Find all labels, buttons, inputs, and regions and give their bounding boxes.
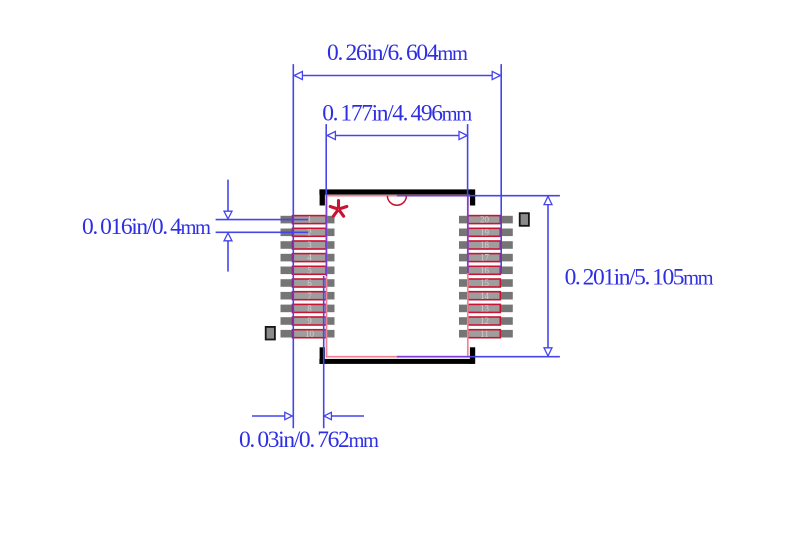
- assembly stub bottom-right: [470, 347, 475, 364]
- dimension line 0.26in: [294, 75, 501, 77]
- arrowhead right 0.26in: [492, 71, 500, 79]
- pad 6 pin outline: [293, 279, 327, 287]
- svg-text:0. 26in/6. 604mm: 0. 26in/6. 604mm: [327, 40, 468, 66]
- svg-text:19: 19: [480, 227, 490, 237]
- pad 9 pin outline: [293, 317, 327, 325]
- svg-text:10: 10: [305, 329, 315, 339]
- dimension line 0.201in: [547, 196, 549, 356]
- pad 6 copper pad: [281, 279, 335, 287]
- leader line left 0.03in: [252, 415, 292, 417]
- pad 3 pin outline: [293, 241, 327, 249]
- extension line right body width: [467, 124, 469, 196]
- assembly outline bottom bar: [319, 359, 472, 364]
- svg-text:14: 14: [480, 291, 490, 301]
- pad 19 copper pad: [459, 229, 513, 237]
- arrowhead right-pointing 0.03in: [285, 412, 292, 419]
- pad 4 pin outline: [293, 254, 327, 262]
- pad 9 copper pad: [281, 317, 335, 325]
- svg-text:15: 15: [480, 278, 490, 288]
- pad 3 copper pad: [281, 241, 335, 249]
- pad 20 copper pad: [459, 216, 513, 224]
- pad 10 pin outline: [293, 330, 327, 338]
- pad 11 pin outline: [468, 330, 500, 338]
- pitch reference line pad2: [216, 231, 308, 233]
- pad 8 pin outline: [293, 304, 327, 312]
- pin-1 end notch arc: [387, 196, 406, 206]
- svg-text:11: 11: [480, 329, 489, 339]
- extension line left pad inset: [323, 276, 325, 428]
- extension line left body width lower: [325, 196, 327, 276]
- pad 13 pin outline: [468, 304, 500, 312]
- extension line right overall width: [500, 64, 502, 273]
- extension line top height overlap: [397, 195, 469, 197]
- package body outline: [327, 196, 468, 357]
- pad 5 pin outline: [293, 266, 327, 274]
- extension line top height: [468, 195, 560, 197]
- pad 16 pin outline: [468, 266, 500, 274]
- arrowhead up 0.201in: [544, 196, 552, 204]
- svg-text:4: 4: [307, 253, 312, 263]
- assembly stub top-left: [320, 189, 325, 205]
- arrowhead right 0.177in: [459, 131, 467, 139]
- pad 10 copper pad: [281, 330, 335, 338]
- svg-text:12: 12: [480, 316, 489, 326]
- pad 13 copper pad: [459, 305, 513, 313]
- arrowhead left-pointing 0.03in: [324, 412, 331, 419]
- assembly stub bottom-left: [320, 347, 325, 364]
- leader line right 0.03in: [324, 415, 364, 417]
- svg-text:3: 3: [307, 240, 312, 250]
- dimension line 0.177in: [327, 135, 467, 137]
- pad 15 copper pad: [459, 279, 513, 287]
- svg-text:0. 201in/5. 105mm: 0. 201in/5. 105mm: [565, 265, 714, 291]
- extension line left overall width: [292, 64, 294, 428]
- arrowhead left 0.26in: [294, 71, 302, 79]
- pitch arrow stem upper: [227, 180, 229, 212]
- extension line left body width: [325, 124, 327, 196]
- svg-text:17: 17: [480, 253, 490, 263]
- svg-text:20: 20: [480, 215, 490, 225]
- pad 16 copper pad: [459, 267, 513, 275]
- pad 1 copper pad: [281, 216, 335, 224]
- pad 12 copper pad: [459, 317, 513, 325]
- marker rectangle right: [520, 213, 529, 226]
- pitch reference line pad1: [216, 219, 308, 221]
- pad 11 copper pad: [459, 330, 513, 338]
- pad 18 copper pad: [459, 241, 513, 249]
- pad 2 pin outline: [293, 228, 327, 236]
- pad 12 pin outline: [468, 317, 500, 325]
- svg-text:5: 5: [307, 265, 312, 275]
- assembly outline top bar: [319, 189, 472, 194]
- svg-text:8: 8: [307, 304, 312, 314]
- pitch arrow stem lower: [227, 241, 229, 272]
- pad 14 pin outline: [468, 292, 500, 300]
- pad 5 copper pad: [281, 267, 335, 275]
- pad 20 pin outline: [468, 216, 500, 224]
- pad 8 copper pad: [281, 305, 335, 313]
- pad 7 pin outline: [293, 292, 327, 300]
- svg-text:0. 016in/0. 4mm: 0. 016in/0. 4mm: [82, 214, 211, 240]
- arrowhead down 0.201in: [544, 348, 552, 356]
- pad 14 copper pad: [459, 292, 513, 300]
- arrowhead up pitch: [224, 233, 232, 241]
- marker rectangle left: [266, 327, 275, 340]
- pad 1 pin outline: [293, 216, 327, 224]
- svg-text:7: 7: [307, 291, 312, 301]
- pad 7 copper pad: [281, 292, 335, 300]
- pad 17 copper pad: [459, 254, 513, 262]
- pin-1 marker asterisk: [330, 201, 347, 217]
- svg-text:6: 6: [307, 278, 312, 288]
- extension line right body width lower: [467, 196, 469, 273]
- pad 17 pin outline: [468, 254, 500, 262]
- svg-text:13: 13: [480, 304, 490, 314]
- svg-text:0. 03in/0. 762mm: 0. 03in/0. 762mm: [239, 427, 379, 453]
- pad 4 copper pad: [281, 254, 335, 262]
- pad 19 pin outline: [468, 228, 500, 236]
- svg-text:9: 9: [307, 316, 312, 326]
- arrowhead left 0.177in: [327, 131, 335, 139]
- svg-text:16: 16: [480, 265, 490, 275]
- svg-text:18: 18: [480, 240, 490, 250]
- extension line bottom height: [468, 356, 560, 358]
- assembly stub top-right: [470, 189, 475, 205]
- pad 18 pin outline: [468, 241, 500, 249]
- extension line bottom height overlap: [397, 356, 469, 358]
- pad 15 pin outline: [468, 279, 500, 287]
- arrowhead down pitch: [224, 211, 232, 219]
- svg-text:0. 177in/4. 496mm: 0. 177in/4. 496mm: [322, 101, 472, 127]
- pad 2 copper pad: [281, 229, 335, 237]
